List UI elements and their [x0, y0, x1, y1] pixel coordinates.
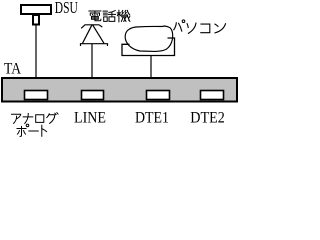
DSU stem — [33, 15, 39, 25]
katakana ン — [215, 24, 226, 33]
wire DSU to analog port — [35, 26, 37, 91]
katakana ー — [29, 130, 38, 132]
telephone base line with end ticks — [81, 44, 108, 46]
label アナログ (analog) — [12, 113, 59, 124]
katakana ロ — [36, 115, 44, 123]
analog port — [25, 91, 48, 100]
svg-text:DTE2: DTE2 — [190, 110, 225, 127]
katakana ナ — [23, 114, 33, 124]
PC base tray — [122, 38, 175, 56]
wire telephone to LINE port — [91, 44, 93, 90]
katakana パ — [174, 20, 185, 31]
label パソコン (PC) — [174, 20, 226, 34]
svg-text:TA: TA — [4, 61, 21, 78]
DSU body — [21, 5, 51, 14]
wire PC to DTE1 port — [150, 56, 152, 91]
label ポート (port) — [17, 124, 47, 136]
katakana ソ — [187, 23, 196, 33]
katakana ポ — [17, 124, 29, 136]
LINE port — [82, 91, 104, 100]
DTE1 port — [147, 91, 170, 100]
kanji 電 — [89, 11, 101, 21]
telephone handset bar — [81, 25, 102, 29]
PC display blob — [125, 26, 172, 51]
katakana コ — [201, 24, 210, 33]
label 電話機 (telephone) — [89, 10, 130, 22]
TA box (terminal adapter) — [2, 78, 237, 102]
svg-text:DSU: DSU — [55, 0, 78, 17]
kanji 話 — [103, 11, 115, 22]
telephone body triangle — [83, 25, 105, 44]
katakana ト — [42, 125, 47, 136]
katakana ア — [12, 114, 21, 123]
katakana グ — [47, 113, 58, 124]
kanji 機 — [117, 10, 130, 22]
svg-text:DTE1: DTE1 — [135, 110, 169, 127]
DTE2 port — [201, 91, 224, 100]
svg-text:LINE: LINE — [74, 110, 106, 127]
